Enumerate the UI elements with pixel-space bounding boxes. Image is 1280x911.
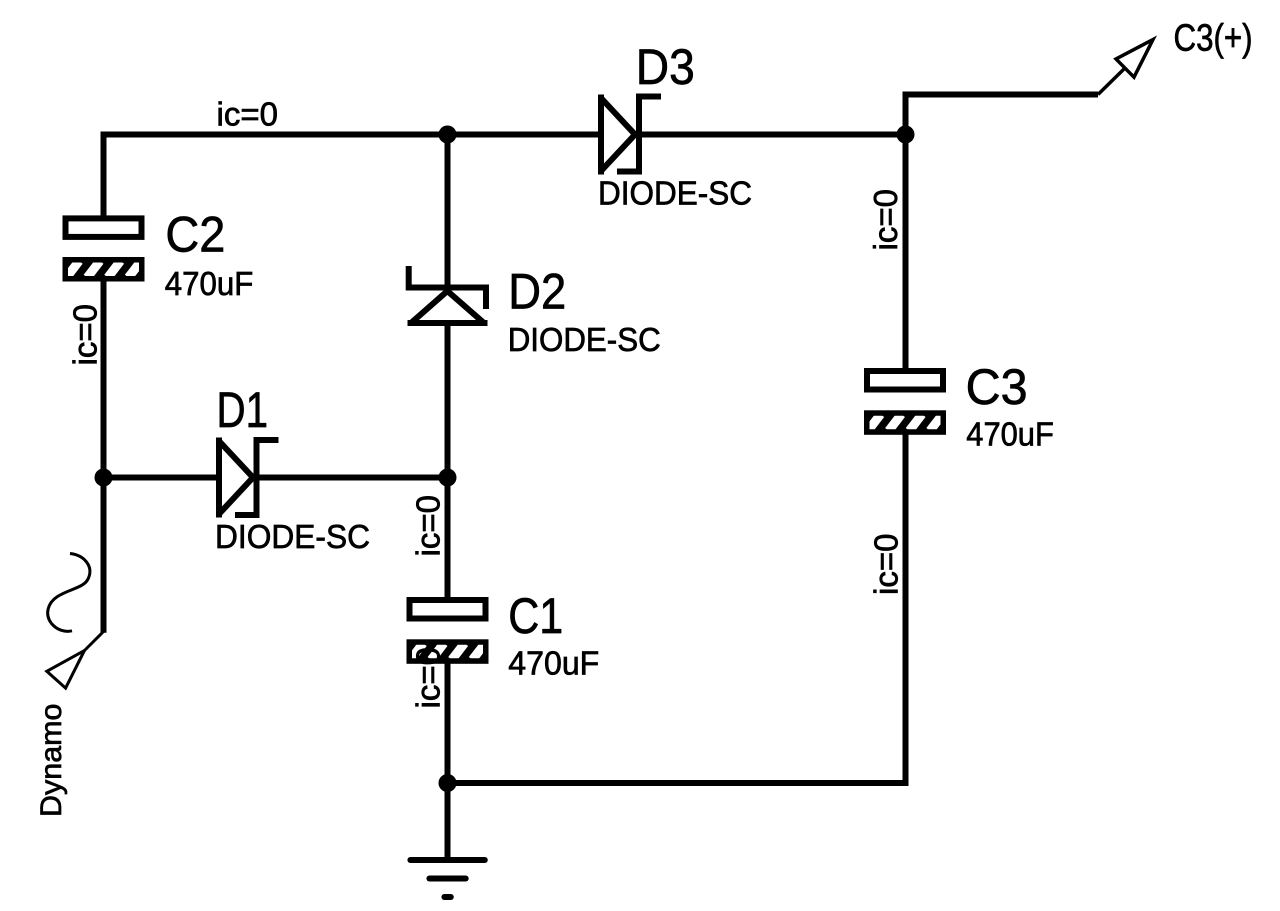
- svg-text:470uF: 470uF: [508, 644, 599, 681]
- svg-text:ic=0: ic=0: [867, 189, 904, 250]
- output terminal arrow C3(+): [1116, 40, 1153, 78]
- svg-text:DIODE-SC: DIODE-SC: [598, 175, 752, 212]
- svg-text:DIODE-SC: DIODE-SC: [508, 321, 661, 358]
- wire middle vertical upper: top junction through D2 to C1: [445, 132, 451, 601]
- node junction dot bottom: [439, 774, 457, 792]
- wire middle vertical lower: C1 bottom to ground: [445, 661, 451, 858]
- svg-text:ic=0: ic=0: [868, 534, 905, 595]
- diode D1 symbol: [219, 438, 279, 518]
- svg-text:D2: D2: [508, 263, 566, 319]
- capacitor C2 top plate: [66, 218, 142, 237]
- svg-text:ic=0: ic=0: [67, 304, 104, 365]
- output terminal lead: [1098, 69, 1125, 95]
- dynamo terminal arrow: [47, 651, 85, 689]
- wire right rail upper: C3 top to output corner: [906, 95, 1099, 372]
- dynamo terminal squiggle: [48, 554, 90, 632]
- node junction dot top middle: [439, 126, 457, 144]
- wire top rail: C2 top to D3 to right junction: [104, 135, 906, 219]
- capacitor C1 top plate: [410, 600, 486, 619]
- svg-text:470uF: 470uF: [966, 415, 1054, 452]
- node junction dot middle: [439, 469, 457, 487]
- svg-text:C1: C1: [508, 588, 563, 644]
- svg-text:ic=0: ic=0: [217, 96, 278, 133]
- svg-text:ic=0: ic=0: [410, 647, 447, 708]
- svg-text:ic=0: ic=0: [410, 495, 447, 556]
- diode D2 symbol: [408, 266, 488, 323]
- node junction dot top right: [897, 126, 915, 144]
- capacitor C2 bottom plate hatched: [63, 257, 145, 282]
- wire bottom rail and right vertical lower to C3: [448, 433, 906, 783]
- capacitor C1 bottom plate hatched: [407, 639, 489, 664]
- svg-text:D1: D1: [217, 382, 269, 438]
- svg-text:470uF: 470uF: [165, 265, 254, 302]
- capacitor C3 top plate: [867, 371, 943, 390]
- svg-text:DIODE-SC: DIODE-SC: [215, 518, 370, 555]
- wire D1 rail: [101, 475, 448, 481]
- svg-text:D3: D3: [636, 39, 695, 95]
- svg-text:C3(+): C3(+): [1174, 18, 1253, 60]
- node junction dot left: [95, 469, 113, 487]
- capacitor C3 bottom plate hatched: [864, 410, 946, 435]
- dynamo terminal lead: [85, 632, 104, 651]
- svg-text:C3: C3: [966, 359, 1028, 415]
- diode D3 symbol: [601, 95, 661, 175]
- svg-text:Dynamo: Dynamo: [35, 704, 68, 818]
- svg-text:C2: C2: [165, 206, 225, 262]
- ground: [410, 860, 484, 897]
- wire left vertical: C2 bottom to dynamo: [101, 279, 107, 633]
